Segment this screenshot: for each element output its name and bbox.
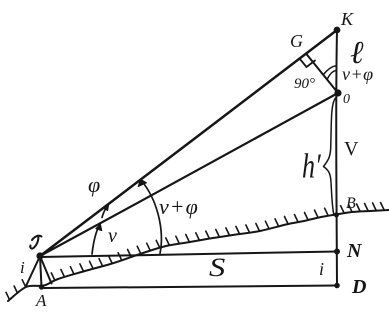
point J (vertex dot) <box>37 253 42 258</box>
arrowhead of big nu+phi arc <box>138 179 146 186</box>
svg-text:i: i <box>319 259 324 279</box>
terrain ground line <box>8 210 389 301</box>
vertical line K-O-B-N-D <box>335 30 338 286</box>
svg-text:B: B <box>346 195 356 212</box>
point B junction <box>335 213 338 216</box>
point K (dot) <box>335 28 340 33</box>
svg-text:D: D <box>351 276 366 298</box>
line J-O (sight line to O) <box>40 93 338 256</box>
svg-text:ν+φ: ν+φ <box>159 194 199 219</box>
angle arc nu+phi (between J-N and J-K) with arrow <box>141 180 162 254</box>
arrowhead of nu arc <box>96 224 102 230</box>
svg-text:ν: ν <box>108 225 117 247</box>
line J-K (sight line to K) <box>40 30 337 256</box>
point A junction <box>40 285 43 288</box>
angle arc phi (between J-K and J-O) with arrow <box>102 205 109 218</box>
svg-text:0: 0 <box>343 92 350 107</box>
baseline A-D <box>44 286 337 289</box>
point O (dot) <box>335 90 340 95</box>
tripod plumb line (J to A) <box>40 256 42 287</box>
label J (script letter at vertex) <box>30 236 41 249</box>
line G-O (perpendicular from G) <box>306 54 338 94</box>
svg-text:S: S <box>209 254 226 282</box>
right angle mark at G <box>300 59 316 68</box>
svg-text:h′: h′ <box>302 146 322 186</box>
svg-text:A: A <box>35 291 47 310</box>
tripod leg right (J to ground) <box>40 256 52 284</box>
svg-text:N: N <box>346 240 363 262</box>
svg-text:i: i <box>20 258 25 277</box>
svg-text:G: G <box>290 31 303 51</box>
angle arc nu (between J-N and J-O) with arrow <box>92 225 100 255</box>
point D junction <box>335 284 339 288</box>
curly brace for h' (O to B) <box>324 98 336 215</box>
svg-text:V: V <box>344 138 359 160</box>
angle arc nu+phi at O (double arc) <box>324 66 337 79</box>
svg-text:φ: φ <box>88 172 100 197</box>
arrowhead of phi arc <box>103 204 109 210</box>
terrain hatch marks <box>6 203 384 300</box>
svg-text:ν+φ: ν+φ <box>342 64 374 84</box>
svg-text:K: K <box>340 9 354 29</box>
tripod leg left (J to ground) <box>26 256 40 286</box>
horizontal line J-N <box>40 252 337 258</box>
point N junction <box>335 250 339 254</box>
svg-text:90°: 90° <box>294 76 315 92</box>
